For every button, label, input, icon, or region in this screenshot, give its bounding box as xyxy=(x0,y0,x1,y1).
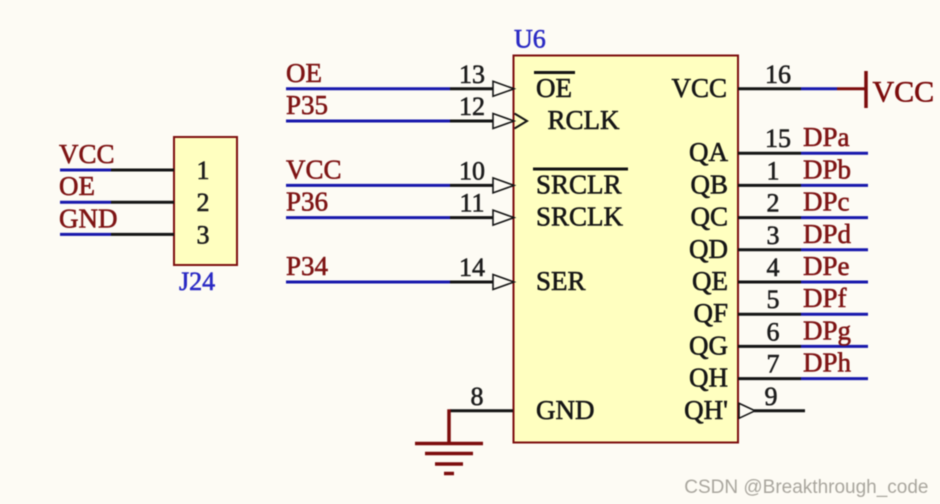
svg-text:QA: QA xyxy=(689,137,728,167)
wire net DPh xyxy=(801,377,868,380)
wire net DPe xyxy=(801,281,868,284)
svg-text:DPb: DPb xyxy=(803,154,851,184)
svg-text:U6: U6 xyxy=(514,25,546,54)
wire net DPa xyxy=(801,152,868,155)
svg-text:DPd: DPd xyxy=(803,219,852,249)
svg-text:GND: GND xyxy=(536,395,595,425)
U6 pin 3 QD xyxy=(738,248,801,251)
svg-text:DPe: DPe xyxy=(803,251,850,281)
svg-text:13: 13 xyxy=(459,60,485,89)
U6 pin 11 SRCLK xyxy=(450,216,513,219)
svg-text:P36: P36 xyxy=(286,187,328,217)
svg-text:7: 7 xyxy=(767,350,780,379)
svg-text:J24: J24 xyxy=(179,267,215,296)
wire net P36 to U6 pin 11 xyxy=(286,216,450,219)
wire net DPg xyxy=(801,345,868,348)
svg-text:14: 14 xyxy=(459,253,485,282)
U6 pin 5 QF xyxy=(738,313,801,316)
U6 pin 6 QG xyxy=(738,345,801,348)
svg-text:1: 1 xyxy=(767,156,780,185)
wire net GND to J24 pin 3 xyxy=(60,233,111,236)
svg-text:CSDN @Breakthrough_code: CSDN @Breakthrough_code xyxy=(684,477,928,498)
svg-text:QE: QE xyxy=(692,266,728,296)
U6 pin 15 QA xyxy=(738,152,801,155)
svg-text:OE: OE xyxy=(286,58,322,88)
svg-text:15: 15 xyxy=(765,124,791,153)
svg-text:10: 10 xyxy=(459,156,485,185)
U6 pin 1 QB xyxy=(738,184,801,187)
U6 pin 13 OE xyxy=(450,87,513,90)
svg-text:3: 3 xyxy=(197,220,210,249)
svg-text:QH': QH' xyxy=(684,395,728,425)
svg-text:OE: OE xyxy=(59,171,95,201)
svg-text:16: 16 xyxy=(765,60,791,89)
wire net VCC to J24 pin 1 xyxy=(60,169,111,172)
wire net DPd xyxy=(801,248,868,251)
U6 pin 2 QC xyxy=(738,216,801,219)
svg-text:QG: QG xyxy=(689,330,728,360)
svg-text:QC: QC xyxy=(690,202,728,232)
wire net P34 to U6 pin 14 xyxy=(286,281,450,284)
U6 pin 12 RCLK xyxy=(450,120,513,123)
wire net P35 to U6 pin 12 xyxy=(286,120,450,123)
svg-text:P34: P34 xyxy=(286,251,329,281)
svg-text:DPh: DPh xyxy=(803,348,852,378)
svg-text:VCC: VCC xyxy=(286,154,342,184)
J24 pin 2 xyxy=(111,201,174,204)
svg-text:2: 2 xyxy=(197,188,210,217)
svg-text:5: 5 xyxy=(767,285,780,314)
svg-text:SRCLK: SRCLK xyxy=(536,202,624,232)
svg-text:8: 8 xyxy=(471,382,484,411)
U6 pin 4 QE xyxy=(738,281,801,284)
clock symbol pin 12 xyxy=(515,114,528,129)
svg-text:QH: QH xyxy=(689,363,728,393)
VCC power symbol xyxy=(837,87,865,90)
svg-text:QD: QD xyxy=(689,234,728,264)
IC U6 body xyxy=(514,56,739,443)
U6 pin 14 SER xyxy=(450,281,513,284)
ground symbol xyxy=(415,409,483,473)
wire net DPb xyxy=(801,184,868,187)
svg-text:DPg: DPg xyxy=(803,315,851,345)
svg-text:3: 3 xyxy=(767,221,780,250)
svg-text:QB: QB xyxy=(690,169,728,199)
svg-text:VCC: VCC xyxy=(59,139,115,169)
svg-text:2: 2 xyxy=(767,189,780,218)
wire net VCC to U6 pin 10 xyxy=(286,184,450,187)
svg-text:GND: GND xyxy=(59,203,118,233)
svg-text:VCC: VCC xyxy=(671,73,727,103)
svg-text:6: 6 xyxy=(767,317,780,346)
U6 pin 10 SRCLR xyxy=(450,184,513,187)
svg-text:SRCLR: SRCLR xyxy=(536,169,622,199)
svg-text:RCLK: RCLK xyxy=(548,105,621,135)
svg-text:1: 1 xyxy=(197,156,210,185)
wire net OE to U6 pin 13 xyxy=(286,87,450,90)
connector J24 body xyxy=(174,137,237,265)
wire pin16 to VCC power xyxy=(801,87,837,90)
U6 pin 8 GND xyxy=(450,409,513,412)
svg-text:DPc: DPc xyxy=(803,187,850,217)
J24 pin 3 xyxy=(111,233,174,236)
J24 pin 1 xyxy=(111,169,174,172)
svg-text:4: 4 xyxy=(767,253,780,282)
U6 pin 7 QH xyxy=(738,377,801,380)
svg-text:VCC: VCC xyxy=(873,76,935,109)
svg-text:12: 12 xyxy=(459,92,485,121)
U6 pin 9 QH' xyxy=(754,409,805,412)
svg-text:DPa: DPa xyxy=(803,122,850,152)
U6 pin 16 VCC xyxy=(738,87,801,90)
svg-text:11: 11 xyxy=(459,189,484,218)
wire net DPc xyxy=(801,216,868,219)
svg-text:QF: QF xyxy=(693,298,728,328)
svg-text:DPf: DPf xyxy=(803,283,847,313)
svg-text:P35: P35 xyxy=(286,90,328,120)
wire net DPf xyxy=(801,313,868,316)
svg-text:9: 9 xyxy=(765,382,778,411)
wire net OE to J24 pin 2 xyxy=(60,201,111,204)
svg-text:SER: SER xyxy=(536,266,586,296)
svg-text:OE: OE xyxy=(536,73,572,103)
